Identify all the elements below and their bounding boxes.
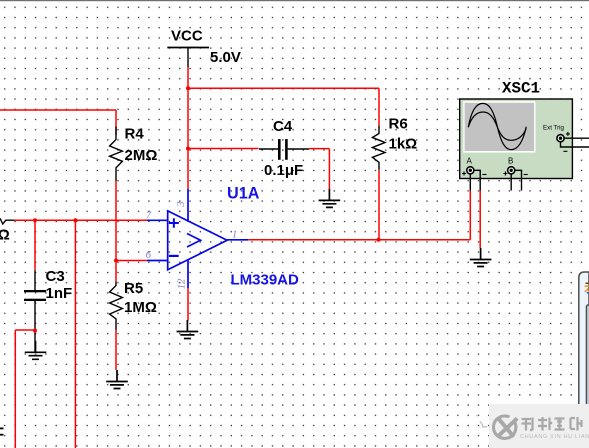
- svg-text:1: 1: [232, 229, 237, 240]
- svg-text:Ω: Ω: [0, 227, 10, 244]
- svg-text:U1A: U1A: [227, 185, 260, 203]
- svg-text:1MΩ: 1MΩ: [124, 299, 157, 316]
- svg-text:C3: C3: [46, 268, 65, 285]
- svg-text:R4: R4: [125, 126, 145, 143]
- svg-text:2MΩ: 2MΩ: [125, 147, 158, 164]
- svg-text:A: A: [467, 157, 473, 166]
- svg-text:1kΩ: 1kΩ: [389, 136, 418, 153]
- svg-text:3: 3: [176, 201, 187, 207]
- svg-text:LM339AD: LM339AD: [231, 272, 300, 289]
- svg-text:12: 12: [177, 278, 188, 289]
- svg-text:R5: R5: [124, 280, 143, 297]
- svg-text:XSC1: XSC1: [502, 79, 540, 97]
- svg-text:CHUANG XIN HU LIAN: CHUANG XIN HU LIAN: [520, 434, 589, 440]
- svg-text:C4: C4: [273, 118, 293, 135]
- svg-text:VCC: VCC: [171, 27, 203, 44]
- svg-text:6: 6: [146, 250, 152, 261]
- svg-text:B: B: [508, 157, 513, 166]
- svg-text:Ext Trig: Ext Trig: [543, 125, 565, 132]
- svg-text:1nF: 1nF: [46, 285, 73, 302]
- svg-text:0.1μF: 0.1μF: [264, 162, 303, 179]
- svg-text:7: 7: [146, 210, 152, 221]
- svg-text:5.0V: 5.0V: [210, 49, 241, 66]
- svg-text:R6: R6: [389, 116, 408, 133]
